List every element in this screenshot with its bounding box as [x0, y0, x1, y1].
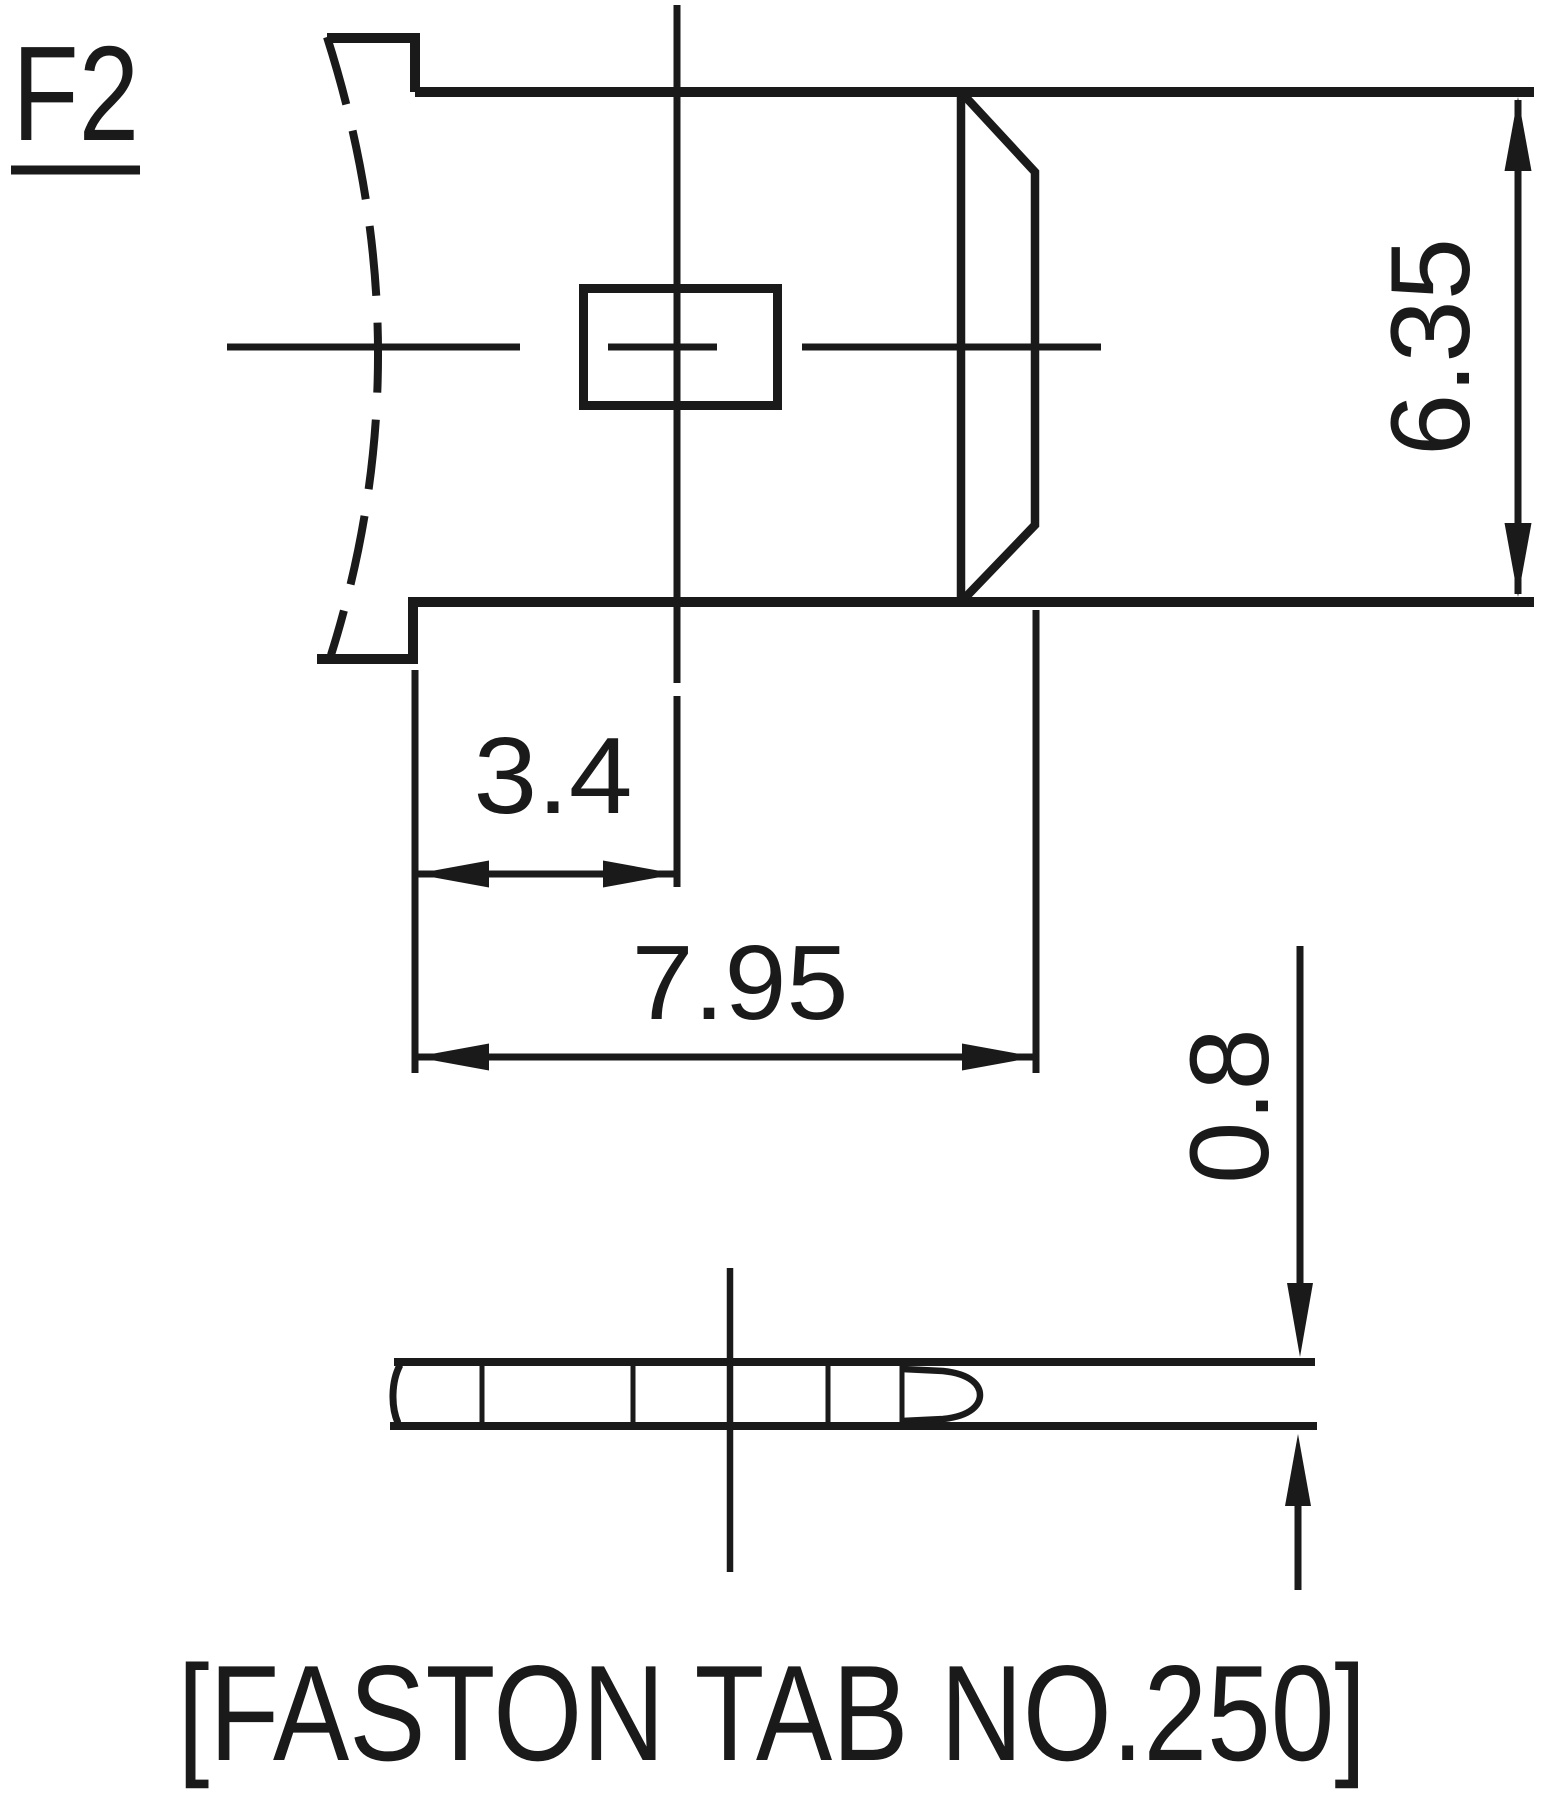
- svg-text:7.95: 7.95: [632, 924, 849, 1042]
- svg-text:0.8: 0.8: [1167, 1028, 1292, 1184]
- svg-text:6.35: 6.35: [1368, 238, 1493, 456]
- svg-text:[FASTON TAB NO.250]: [FASTON TAB NO.250]: [178, 1637, 1367, 1790]
- svg-text:F2: F2: [12, 18, 139, 169]
- svg-text:3.4: 3.4: [473, 714, 632, 836]
